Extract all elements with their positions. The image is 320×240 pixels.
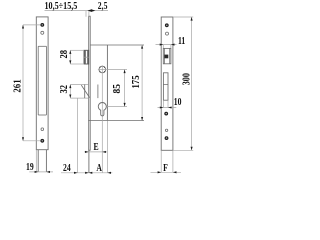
svg-text:261: 261 bbox=[12, 79, 24, 92]
svg-text:F: F bbox=[163, 163, 168, 175]
svg-text:28: 28 bbox=[58, 50, 70, 59]
svg-text:300: 300 bbox=[180, 73, 193, 85]
svg-text:175: 175 bbox=[130, 75, 142, 88]
svg-text:10: 10 bbox=[174, 97, 182, 109]
svg-text:85: 85 bbox=[112, 84, 124, 93]
svg-text:24: 24 bbox=[63, 163, 71, 175]
svg-text:32: 32 bbox=[58, 85, 70, 94]
svg-text:10,5÷15,5: 10,5÷15,5 bbox=[44, 0, 77, 12]
svg-text:A: A bbox=[96, 163, 102, 175]
svg-text:11: 11 bbox=[178, 36, 185, 48]
svg-text:E: E bbox=[93, 142, 98, 154]
svg-text:2,5: 2,5 bbox=[98, 1, 108, 13]
svg-text:19: 19 bbox=[26, 162, 34, 174]
